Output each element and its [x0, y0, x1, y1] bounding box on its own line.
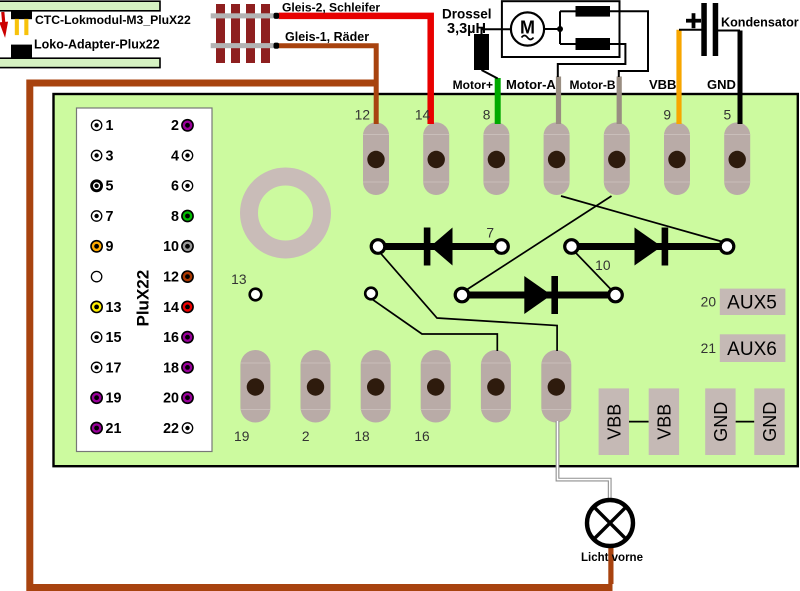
- svg-text:Loko-Adapter-Plux22: Loko-Adapter-Plux22: [34, 38, 160, 52]
- svg-text:VBB: VBB: [649, 77, 676, 92]
- svg-text:5: 5: [106, 179, 114, 195]
- svg-text:AUX5: AUX5: [727, 293, 777, 314]
- svg-text:16: 16: [414, 429, 430, 444]
- svg-text:Kondensator: Kondensator: [721, 16, 799, 30]
- svg-text:14: 14: [163, 300, 179, 316]
- svg-text:17: 17: [106, 360, 122, 376]
- svg-text:M: M: [520, 18, 535, 38]
- svg-text:PluX22: PluX22: [134, 270, 153, 327]
- svg-text:19: 19: [106, 391, 122, 407]
- svg-text:7: 7: [486, 226, 494, 241]
- svg-text:CTC-Lokmodul-M3_PluX22: CTC-Lokmodul-M3_PluX22: [35, 13, 191, 27]
- svg-text:Gleis-2, Schleifer: Gleis-2, Schleifer: [282, 1, 380, 15]
- svg-text:13: 13: [106, 300, 122, 316]
- svg-text:10: 10: [595, 258, 611, 273]
- svg-text:VBB: VBB: [604, 404, 624, 440]
- svg-text:Motor-B: Motor-B: [570, 78, 616, 92]
- svg-text:GND: GND: [707, 77, 736, 92]
- svg-text:VBB: VBB: [654, 404, 674, 440]
- svg-text:10: 10: [163, 239, 179, 255]
- svg-text:7: 7: [106, 209, 114, 225]
- svg-text:Drossel: Drossel: [442, 7, 492, 22]
- svg-text:12: 12: [163, 270, 179, 286]
- svg-text:22: 22: [163, 421, 179, 437]
- svg-text:13: 13: [231, 272, 247, 287]
- svg-text:1: 1: [106, 118, 114, 134]
- svg-text:20: 20: [163, 391, 179, 407]
- svg-text:5: 5: [724, 108, 732, 123]
- svg-text:9: 9: [106, 239, 114, 255]
- svg-text:3,3µH: 3,3µH: [447, 21, 486, 37]
- svg-text:6: 6: [171, 179, 179, 195]
- svg-text:Gleis-1, Räder: Gleis-1, Räder: [285, 30, 369, 44]
- svg-text:12: 12: [355, 108, 370, 123]
- svg-text:19: 19: [234, 429, 250, 444]
- svg-text:15: 15: [106, 330, 122, 346]
- svg-text:AUX6: AUX6: [727, 339, 777, 360]
- svg-text:18: 18: [354, 429, 370, 444]
- svg-text:16: 16: [163, 330, 179, 346]
- svg-text:9: 9: [663, 108, 671, 123]
- svg-text:21: 21: [106, 421, 122, 437]
- svg-text:8: 8: [483, 108, 491, 123]
- svg-text:GND: GND: [711, 402, 731, 442]
- svg-text:14: 14: [415, 108, 431, 123]
- svg-text:2: 2: [171, 118, 179, 134]
- svg-text:4: 4: [171, 148, 179, 164]
- svg-text:3: 3: [106, 148, 114, 164]
- svg-text:21: 21: [701, 341, 716, 356]
- svg-text:GND: GND: [760, 402, 780, 442]
- svg-text:18: 18: [163, 360, 179, 376]
- svg-text:20: 20: [701, 295, 717, 310]
- svg-text:Licht vorne: Licht vorne: [581, 552, 643, 564]
- svg-text:8: 8: [171, 209, 179, 225]
- svg-text:Motor-A: Motor-A: [506, 77, 556, 92]
- svg-text:2: 2: [302, 429, 310, 444]
- svg-text:Motor+: Motor+: [453, 78, 493, 92]
